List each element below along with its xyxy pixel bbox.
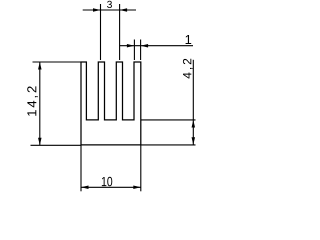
dimension text 3 xyxy=(107,1,112,8)
extension line base top to right (for 4,2) xyxy=(141,119,196,121)
arrowhead down at base bottom (4,2 dim) xyxy=(192,137,196,145)
dimension line 10 horizontal xyxy=(81,186,141,188)
arrowhead down at bottom of 14,2 xyxy=(38,138,42,146)
extension line fin1 centerline (for 3) xyxy=(100,4,102,60)
extension line left profile edge down (for 10) xyxy=(80,145,82,191)
arrowhead up at top of 14,2 xyxy=(38,62,42,70)
arrowhead pointing right at x=140.8 (10 dim) xyxy=(133,186,141,190)
arrowhead pointing left at x=81 (10 dim) xyxy=(81,186,89,190)
extension line fin3 left edge (for 1) xyxy=(133,40,135,61)
dimension line 14,2 vertical xyxy=(39,62,41,145)
dimension text 14,2 (rotated) xyxy=(27,86,38,115)
arrowhead pointing right at x=100.5 (3 dim) xyxy=(93,8,101,12)
dimension text 10 xyxy=(102,177,112,186)
arrowhead pointing left at x=140.6 (1 dim) xyxy=(141,44,149,48)
extension line left of bottom edge (for 14,2) xyxy=(31,144,82,146)
extension line left of top edge (for 14,2) xyxy=(33,61,82,63)
dimension line 4,2 vertical xyxy=(192,60,194,145)
arrowhead pointing right at x=134.4 (1 dim) xyxy=(127,44,134,48)
extension line base bottom to right (for 4,2) xyxy=(141,144,196,146)
heatsink profile outline xyxy=(81,62,141,145)
dimension line 3 horizontal xyxy=(83,9,136,11)
arrowhead pointing left at x=119.6 (3 dim) xyxy=(120,8,128,12)
extension line right profile edge down (for 10) xyxy=(140,145,142,191)
dimension text 4,2 (rotated) xyxy=(183,59,193,79)
extension line fin3 right edge (for 1) xyxy=(140,40,142,61)
extension line fin2 centerline (for 3) xyxy=(119,4,121,60)
arrowhead up at base top (4,2 dim) xyxy=(192,120,196,128)
dimension text 1 xyxy=(186,35,192,44)
dimension line 1 horizontal xyxy=(120,45,193,47)
